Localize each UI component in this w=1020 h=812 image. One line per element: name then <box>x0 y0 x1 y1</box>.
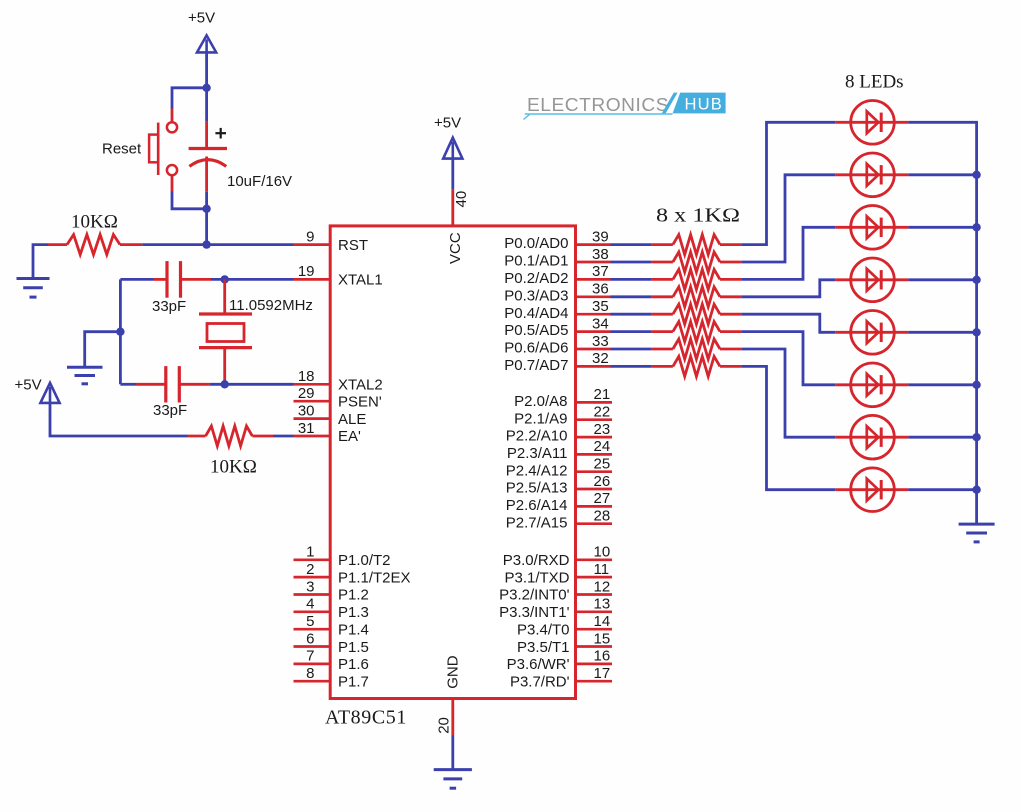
op IC U1 AT89C51 body <box>330 226 575 699</box>
ground (IC GND) <box>434 770 472 789</box>
pin 13 P3.3/INT1' <box>499 596 612 621</box>
svg-text:XTAL1: XTAL1 <box>338 272 383 289</box>
LED D1 <box>835 101 908 145</box>
wire C3 to XTAL2 pin 18 <box>210 383 294 386</box>
pin 17 P3.7/RD' <box>510 665 612 691</box>
label AT89C51 <box>325 707 407 729</box>
pin 2 P1.1/T2EX <box>294 561 411 587</box>
svg-text:33: 33 <box>592 333 609 350</box>
resistor R1 10K <box>48 235 142 255</box>
pin 12 P3.2/INT0' <box>499 578 612 603</box>
svg-text:38: 38 <box>592 246 609 263</box>
ground (LED rail) <box>959 524 995 542</box>
power +5V symbol (reset circuit) <box>188 10 216 53</box>
wire pin 37 to resistor <box>611 278 652 281</box>
LED D5 <box>835 311 908 355</box>
svg-text:24: 24 <box>594 438 611 455</box>
svg-text:VCC: VCC <box>447 232 464 264</box>
svg-text:HUB: HUB <box>685 94 724 113</box>
node junction XTAL2 <box>221 380 229 388</box>
svg-text:P3.3/INT1': P3.3/INT1' <box>499 604 570 621</box>
pin 35 P0.4/AD4 <box>504 298 610 322</box>
pin 3 P1.2 <box>294 578 369 603</box>
LED D7 <box>835 415 908 459</box>
resistor R7 1K <box>652 304 741 324</box>
svg-text:29: 29 <box>298 385 315 402</box>
pin 18 XTAL2 <box>294 368 383 393</box>
pin 39 P0.0/AD0 <box>504 228 610 252</box>
svg-text:10KΩ: 10KΩ <box>210 456 257 477</box>
svg-text:27: 27 <box>594 490 611 507</box>
pin 24 P2.3/A11 <box>507 438 612 462</box>
svg-text:6: 6 <box>306 630 314 647</box>
wire LED D1 to rail <box>908 122 976 524</box>
svg-text:10KΩ: 10KΩ <box>71 212 118 233</box>
svg-text:P1.7: P1.7 <box>338 674 369 691</box>
wire +5V to resistor R2 <box>50 403 188 436</box>
svg-text:P3.4/T0: P3.4/T0 <box>517 621 570 638</box>
pin 32 P0.7/AD7 <box>504 350 610 374</box>
svg-text:32: 32 <box>592 350 609 367</box>
wire pin 32 to resistor <box>611 365 652 368</box>
ground (crystal) <box>67 367 103 384</box>
svg-text:5: 5 <box>306 613 314 630</box>
svg-text:10uF/16V: 10uF/16V <box>227 173 292 190</box>
svg-text:+5V: +5V <box>434 115 461 132</box>
wire R2 to pin 31 <box>273 435 294 438</box>
wire RST junction to pin 9 <box>207 243 294 246</box>
wire pin 34 to resistor <box>611 330 652 333</box>
pin 36 P0.3/AD3 <box>504 281 610 305</box>
svg-text:4: 4 <box>306 596 314 613</box>
wire resistor R5 to LED D3 <box>741 227 835 279</box>
wire resistor R7 to LED D5 <box>741 314 835 332</box>
resistor R3 1K <box>652 235 741 255</box>
wire LED D6 to rail <box>908 383 976 386</box>
svg-text:Reset: Reset <box>102 140 142 157</box>
node junction rail row 5 <box>972 328 980 336</box>
logo underline <box>524 114 673 120</box>
svg-text:23: 23 <box>594 421 611 438</box>
capacitor C1 10uF/16V <box>189 128 227 166</box>
wire resistor R4 to LED D2 <box>741 175 835 262</box>
wire pin 38 to resistor <box>611 261 652 264</box>
svg-text:P0.2/AD2: P0.2/AD2 <box>504 270 568 287</box>
pin 27 P2.6/A14 <box>506 490 612 514</box>
resistor R10 1K <box>652 356 741 376</box>
svg-text:+5V: +5V <box>188 10 215 27</box>
pin number 40 <box>453 191 470 208</box>
wire C2 right to XTAL1 pin 19 <box>211 278 294 281</box>
wire pin 33 to resistor <box>611 348 652 351</box>
svg-text:31: 31 <box>298 420 315 437</box>
label 33pF (bottom) <box>153 402 187 419</box>
wire junction to RST node <box>205 209 208 245</box>
pin 30 ALE <box>294 402 367 427</box>
wire LED D2 to rail <box>908 173 976 176</box>
resistor R9 1K <box>652 339 741 359</box>
wire resistor R8 to LED D6 <box>741 332 835 385</box>
svg-text:P3.5/T1: P3.5/T1 <box>517 639 570 656</box>
label 10K ohm (EA) <box>210 456 257 477</box>
resistor R6 1K <box>652 287 741 307</box>
svg-text:P1.2: P1.2 <box>338 587 369 604</box>
wire pin 36 to resistor <box>611 295 652 298</box>
logo HUB box <box>673 93 726 114</box>
svg-text:RST: RST <box>338 237 368 254</box>
pin 5 P1.4 <box>294 613 369 638</box>
label 11.0592MHz <box>229 297 313 314</box>
label 10K ohm (RST pull-down) <box>71 212 118 233</box>
node junction XTAL1 <box>221 275 229 283</box>
wire bus to C3 <box>120 383 135 386</box>
label VCC <box>447 232 464 264</box>
LED D3 <box>835 206 908 250</box>
wire vertical bus (C2-C3) <box>119 279 122 384</box>
wire pin 39 to resistor <box>611 243 652 246</box>
wire resistor R9 to LED D7 <box>741 349 835 437</box>
resistor R8 1K <box>652 322 741 342</box>
svg-text:P1.0/T2: P1.0/T2 <box>338 552 391 569</box>
pin 10 P3.0/RXD <box>503 544 612 569</box>
svg-text:P2.7/A15: P2.7/A15 <box>506 514 568 531</box>
svg-text:28: 28 <box>594 508 611 525</box>
svg-text:40: 40 <box>453 191 470 208</box>
node junction (top of reset/capacitor) <box>202 84 210 92</box>
svg-text:11: 11 <box>594 561 610 578</box>
svg-text:12: 12 <box>594 578 611 595</box>
node junction rail row 4 <box>972 276 980 284</box>
power +5V symbol (VCC) <box>434 115 462 159</box>
svg-text:10: 10 <box>594 544 611 561</box>
svg-text:P0.1/AD1: P0.1/AD1 <box>504 253 568 270</box>
logo lightning bolt <box>662 93 678 114</box>
pin 22 P2.1/A9 <box>514 404 612 428</box>
pin 38 P0.1/AD1 <box>504 246 610 270</box>
wire +5V down to junction <box>205 52 208 87</box>
svg-text:P1.3: P1.3 <box>338 604 369 621</box>
svg-text:P3.2/INT0': P3.2/INT0' <box>499 587 570 604</box>
svg-text:PSEN': PSEN' <box>338 393 382 410</box>
svg-text:7: 7 <box>306 648 314 665</box>
crystal X1 11.0592MHz <box>199 279 252 384</box>
wire LED D3 to rail <box>908 226 976 229</box>
wire resistor R3 to LED D1 <box>741 122 835 244</box>
wire C2 left to vertical bus <box>120 278 153 281</box>
LED D2 <box>835 153 908 197</box>
svg-text:33pF: 33pF <box>152 298 186 315</box>
label 8 x 1K ohm <box>656 205 740 227</box>
pin number 20 <box>436 717 453 734</box>
svg-text:25: 25 <box>594 456 611 473</box>
svg-text:P1.5: P1.5 <box>338 639 369 656</box>
wire capacitor to junction <box>205 157 208 209</box>
svg-text:P2.5/A13: P2.5/A13 <box>506 480 568 497</box>
svg-text:22: 22 <box>594 404 611 421</box>
wire VCC supply <box>451 159 454 226</box>
svg-text:35: 35 <box>592 298 609 315</box>
svg-text:39: 39 <box>592 228 609 245</box>
svg-text:XTAL2: XTAL2 <box>338 377 383 394</box>
node junction (reset bottom) <box>202 205 210 213</box>
svg-text:P3.0/RXD: P3.0/RXD <box>503 552 570 569</box>
pin 7 P1.6 <box>294 648 369 673</box>
svg-text:P1.6: P1.6 <box>338 656 369 673</box>
svg-text:ELECTRONICS: ELECTRONICS <box>527 95 669 115</box>
svg-text:1: 1 <box>306 544 314 561</box>
svg-text:19: 19 <box>298 263 315 280</box>
resistor R4 1K <box>652 252 741 272</box>
svg-text:P0.3/AD3: P0.3/AD3 <box>504 287 568 304</box>
svg-text:ALE: ALE <box>338 411 366 428</box>
pin 37 P0.2/AD2 <box>504 263 610 287</box>
label 8 LEDs <box>845 72 904 93</box>
svg-text:33pF: 33pF <box>153 402 187 419</box>
svg-text:P2.3/A11: P2.3/A11 <box>507 445 568 462</box>
pin 21 P2.0/A8 <box>514 386 612 410</box>
svg-text:26: 26 <box>594 473 611 490</box>
wire LED D8 to rail <box>908 488 976 491</box>
resistor R5 1K <box>652 269 741 289</box>
svg-text:P2.4/A12: P2.4/A12 <box>506 462 568 479</box>
svg-text:P3.1/TXD: P3.1/TXD <box>504 569 569 586</box>
pin 15 P3.5/T1 <box>517 630 612 656</box>
svg-text:EA': EA' <box>338 428 361 445</box>
svg-text:GND: GND <box>445 655 462 689</box>
wire LED D4 to rail <box>908 278 976 281</box>
svg-text:36: 36 <box>592 281 609 298</box>
svg-text:21: 21 <box>594 386 611 403</box>
node junction RST <box>202 240 210 248</box>
pin 31 EA' <box>294 420 362 445</box>
wire reset switch bottom to junction <box>172 175 207 209</box>
wire junction down to capacitor <box>205 88 208 149</box>
pin 1 P1.0/T2 <box>294 544 391 569</box>
svg-text:14: 14 <box>594 613 611 630</box>
svg-text:P1.4: P1.4 <box>338 621 369 638</box>
svg-text:AT89C51: AT89C51 <box>325 707 407 729</box>
svg-text:P1.1/T2EX: P1.1/T2EX <box>338 569 411 586</box>
pin 19 XTAL1 <box>294 263 383 288</box>
svg-text:P2.0/A8: P2.0/A8 <box>514 393 567 410</box>
svg-text:34: 34 <box>592 315 609 332</box>
svg-text:37: 37 <box>592 263 609 280</box>
svg-text:P3.7/RD': P3.7/RD' <box>510 674 570 691</box>
resistor R2 10K (EA) <box>188 426 274 446</box>
pushbutton SW1 Reset <box>149 122 177 175</box>
pin 4 P1.3 <box>294 596 369 621</box>
node junction rail row 6 <box>972 381 980 389</box>
svg-text:8 LEDs: 8 LEDs <box>845 72 904 93</box>
node junction rail row 7 <box>972 433 980 441</box>
power +5V symbol (EA circuit) <box>15 377 60 403</box>
wire junction to reset switch top <box>172 88 207 122</box>
svg-text:P2.1/A9: P2.1/A9 <box>514 410 567 427</box>
pin 29 PSEN' <box>294 385 382 410</box>
node junction rail row 2 <box>972 171 980 179</box>
svg-text:P2.2/A10: P2.2/A10 <box>506 428 568 445</box>
label GND <box>445 655 462 689</box>
pin 33 P0.6/AD6 <box>504 333 610 357</box>
svg-text:P0.0/AD0: P0.0/AD0 <box>504 235 568 252</box>
svg-text:2: 2 <box>306 561 314 578</box>
svg-text:17: 17 <box>594 665 611 682</box>
label Reset <box>102 140 142 157</box>
svg-text:P0.6/AD6: P0.6/AD6 <box>504 340 568 357</box>
wire bus to ground <box>85 332 121 368</box>
wire LED D5 to rail <box>908 331 976 334</box>
svg-text:8: 8 <box>306 665 314 682</box>
svg-text:9: 9 <box>306 228 314 245</box>
pin 14 P3.4/T0 <box>517 613 612 638</box>
capacitor C2 33pF (top) <box>154 261 212 298</box>
pin 16 P3.6/WR' <box>507 648 612 673</box>
label 10uF/16V <box>227 173 292 190</box>
node junction rail row 8 <box>972 486 980 494</box>
LED D6 <box>835 363 908 407</box>
label 33pF (top) <box>152 298 186 315</box>
wire resistor R10 to LED D8 <box>741 366 835 489</box>
svg-text:P0.7/AD7: P0.7/AD7 <box>504 357 568 374</box>
svg-text:+5V: +5V <box>15 377 42 394</box>
svg-text:13: 13 <box>594 596 611 613</box>
ground (left, below R1) <box>17 279 50 298</box>
pin 9 RST <box>294 228 369 253</box>
node junction rail row 3 <box>972 223 980 231</box>
wire ground to resistor R1 <box>33 245 48 279</box>
svg-text:P3.6/WR': P3.6/WR' <box>507 656 570 673</box>
wire pin 35 to resistor <box>611 313 652 316</box>
wire resistor R1 to RST junction <box>142 243 206 246</box>
svg-text:P2.6/A14: P2.6/A14 <box>506 497 568 514</box>
svg-text:15: 15 <box>594 630 611 647</box>
pin 23 P2.2/A10 <box>506 421 612 445</box>
svg-text:18: 18 <box>298 368 315 385</box>
svg-text:20: 20 <box>436 717 453 734</box>
svg-text:P0.4/AD4: P0.4/AD4 <box>504 305 568 322</box>
wire resistor R6 to LED D4 <box>741 280 835 297</box>
svg-text:16: 16 <box>594 648 611 665</box>
pin 8 P1.7 <box>294 665 369 691</box>
pin 28 P2.7/A15 <box>506 508 612 532</box>
svg-text:11.0592MHz: 11.0592MHz <box>229 297 313 314</box>
LED D8 <box>835 468 908 512</box>
svg-text:3: 3 <box>306 578 314 595</box>
wire GND pin 20 <box>451 699 454 770</box>
pin 11 P3.1/TXD <box>504 561 612 587</box>
wire LED D7 to rail <box>908 436 976 439</box>
node junction (crystal ground bus) <box>116 328 124 336</box>
pin 34 P0.5/AD5 <box>504 315 610 339</box>
svg-text:30: 30 <box>298 402 315 419</box>
capacitor C3 33pF (bottom) <box>136 366 210 402</box>
LED D4 <box>835 258 908 302</box>
svg-text:P0.5/AD5: P0.5/AD5 <box>504 322 568 339</box>
pin 26 P2.5/A13 <box>506 473 612 497</box>
logo ELECTRONICS text <box>527 95 669 115</box>
pin 6 P1.5 <box>294 630 369 656</box>
svg-text:8 x 1KΩ: 8 x 1KΩ <box>656 205 740 227</box>
pin 25 P2.4/A12 <box>506 456 612 480</box>
